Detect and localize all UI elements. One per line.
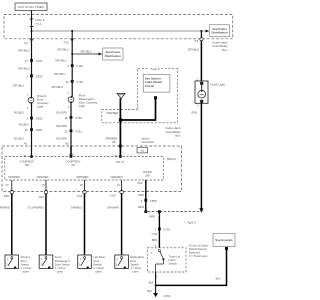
svg-text:F13: F13 (64, 40, 69, 44)
svg-text:Circuit: Circuit (145, 84, 154, 88)
junction node at F13 tap (71, 30, 73, 32)
connector 2 C933 (30, 74, 33, 77)
svg-text:HOT AT ALL TIMES: HOT AT ALL TIMES (18, 5, 43, 9)
option connector small box (137, 148, 148, 153)
svg-text:INT LT: INT LT (116, 160, 124, 164)
fuse 6 element ticks (30, 18, 34, 20)
label Driver's Door Courtesy Light (37, 94, 49, 109)
svg-text:BRN: BRN (152, 238, 158, 242)
trunk lid latch switch dashed box (147, 248, 186, 272)
svg-text:(*2) GRN/RED: (*2) GRN/RED (27, 205, 44, 209)
wire C lower (thick) (84, 194, 86, 255)
circle where GRN/RED wire enters box (119, 145, 122, 148)
svg-text:GRY/BLU: GRY/BLU (188, 48, 199, 52)
svg-text:* : Type 5: * : Type 5 (184, 221, 197, 225)
thick wire from triangle down to box (119, 98, 121, 146)
svg-text:GRN/RED: GRN/RED (77, 175, 89, 179)
svg-text:H12: H12 (39, 195, 45, 199)
connector 15 C604 (30, 128, 33, 131)
wire W1 (31, 41, 33, 98)
wire color labels above switches (0, 205, 120, 209)
svg-text:16: 16 (80, 183, 84, 187)
connector circle H12 (44, 190, 48, 194)
svg-text:BLK: BLK (149, 280, 154, 284)
svg-text:E18: E18 (4, 194, 9, 198)
svg-text:Light: Light (37, 105, 43, 109)
svg-text:Fuse 6: Fuse 6 (35, 18, 45, 22)
svg-text:18: 18 (64, 116, 68, 120)
svg-text:15: 15 (42, 183, 46, 187)
wire E from box to C505 (145, 180, 147, 212)
ground symbol G701 (153, 293, 158, 297)
svg-text:Connector: Connector (141, 140, 154, 144)
svg-text:GRN/WHT: GRN/WHT (107, 205, 120, 209)
terminal squares on inner box edge (30, 155, 33, 158)
arrow to See Power Distribution (top right) (206, 30, 210, 33)
front passenger's door courtesy light bulb (68, 96, 74, 103)
label Option Connector (141, 136, 154, 144)
svg-text:10: 10 (66, 80, 70, 84)
wire W2 drop from bus (71, 31, 73, 39)
connector 20 C751 (70, 129, 73, 132)
wire W2 (71, 41, 73, 97)
terminal dot on jumper for wire F (158, 210, 161, 213)
label: Under-dash Fuse/Relay Box (top right) (212, 40, 228, 52)
GRN/RED labels above output pins (8, 175, 123, 179)
left rear door switch (78, 255, 92, 269)
terminal under switch circuit box (154, 96, 157, 99)
label Type 5 (149, 67, 162, 71)
wire D upper (121, 180, 123, 191)
svg-text:7.5 A: 7.5 A (35, 22, 41, 26)
svg-text:BRN: BRN (150, 214, 156, 218)
connector circle E16 (83, 190, 87, 194)
svg-text:open: open (57, 270, 64, 274)
svg-text:F2: F2 (24, 41, 28, 45)
svg-text:A3: A3 (65, 141, 69, 145)
svg-text:open: open (132, 270, 139, 274)
connector F13 on box edge (71, 38, 74, 41)
svg-text:open: open (95, 270, 102, 274)
wire B upper (45, 180, 47, 191)
svg-text:GRN/RED: GRN/RED (0, 205, 10, 209)
arrowhead at trunk wire end (199, 208, 203, 213)
connector 4 C505 (144, 199, 147, 202)
svg-text:BLK: BLK (216, 276, 221, 280)
svg-text:YEL/BLU: YEL/BLU (13, 137, 24, 141)
connector circle E18 (10, 190, 14, 194)
svg-text:C736: C736 (76, 80, 83, 84)
svg-text:C505: C505 (150, 199, 157, 203)
svg-text:YEL/BLU: YEL/BLU (18, 123, 29, 127)
wire W1 lower (31, 103, 33, 146)
svg-text:C604: C604 (36, 128, 43, 132)
connector F2 on box edge (30, 38, 33, 41)
inner MICU dashed box (5, 157, 164, 181)
svg-text:Type 5: Type 5 (151, 67, 160, 71)
svg-text:BLK: BLK (147, 289, 152, 293)
sub-label COURTESY AS (66, 160, 81, 167)
bus wire inside fuse box (32, 30, 207, 32)
svg-text:1 = Trunk open: 1 = Trunk open (189, 254, 208, 258)
svg-text:Box: Box (222, 48, 228, 52)
svg-text:YEL/BLU: YEL/BLU (13, 111, 24, 115)
svg-text:YEL/GRN: YEL/GRN (56, 136, 68, 140)
svg-text:GRY/BLU: GRY/BLU (51, 85, 62, 89)
svg-text:P23: P23 (138, 181, 143, 185)
driver's door switch (5, 255, 19, 269)
wire B lower (thick) (45, 194, 47, 255)
svg-text:20: 20 (64, 129, 68, 133)
connector 10 C736 (71, 80, 74, 83)
svg-text:T1: T1 (141, 149, 145, 153)
trunk light feed wire (200, 41, 202, 81)
sub-label TRUNK SW (143, 170, 152, 177)
wire F down to trunk switch (158, 213, 160, 248)
connector F3 on box edge (200, 38, 203, 41)
sub-label INT LT (116, 160, 124, 164)
wire A upper (11, 180, 13, 191)
svg-text:BRN: BRN (138, 205, 144, 209)
junction to ground bus (155, 284, 157, 286)
thick ground link wire (156, 248, 227, 286)
svg-text:See Grounds: See Grounds (215, 238, 233, 242)
svg-text:E16: E16 (77, 194, 82, 198)
svg-text:15: 15 (25, 128, 29, 132)
svg-text:C755: C755 (75, 116, 82, 120)
svg-text:Distribution: Distribution (105, 54, 121, 58)
front passenger's door switch (39, 255, 53, 269)
svg-text:GRY/BLU: GRY/BLU (55, 59, 66, 63)
label Under-dash Fuse/Relay Box (middle) (165, 126, 181, 138)
connector 4 C132 (71, 64, 74, 67)
See Power Distribution box (top right) (210, 25, 230, 37)
trunk light box (195, 81, 208, 103)
wire W1 upper segment (fuse to box edge) (31, 31, 33, 39)
HOT AT ALL TIMES box (15, 3, 47, 10)
svg-text:Trunk Light: Trunk Light (210, 82, 225, 86)
connector 18 C755 (70, 116, 73, 119)
See Power Distribution box (middle) (103, 48, 123, 60)
junction node at F3 tap (200, 30, 202, 32)
svg-text:GRY/BLU: GRY/BLU (13, 84, 24, 88)
under-dash fuse/relay box (top) dashed outline (4, 15, 233, 39)
svg-text:G701: G701 (164, 294, 171, 298)
svg-text:C431: C431 (36, 59, 43, 63)
label Trunk Lid Latch Switch (inside box) (169, 254, 181, 265)
svg-text:(MICU): (MICU) (167, 157, 176, 161)
See Interior Light Switch Circuit box (143, 74, 170, 92)
trunk light ground wire (200, 103, 202, 208)
wire D lower (thick) (121, 194, 123, 255)
Type 5 dashed box (102, 68, 178, 122)
svg-text:GRN/RED: GRN/RED (37, 175, 49, 179)
svg-text:H13: H13 (111, 194, 117, 198)
See Grounds box (213, 234, 235, 247)
connector 1 C933 (30, 117, 33, 120)
svg-text:C933: C933 (36, 117, 43, 121)
svg-text:TRUNK: TRUNK (143, 170, 152, 174)
svg-text:C132: C132 (76, 64, 83, 68)
wire stubs inside outer box (31, 146, 33, 157)
svg-text:Switch: Switch (169, 262, 178, 266)
svg-text:GRY/BLU: GRY/BLU (57, 47, 68, 51)
svg-text:SW: SW (145, 174, 150, 178)
svg-text:GRN/BLU: GRN/BLU (71, 205, 83, 209)
svg-text:open: open (23, 270, 30, 274)
connector 2 C761 (158, 228, 161, 231)
driver's door courtesy light bulb (28, 97, 34, 104)
svg-text:YEL/GRN: YEL/GRN (56, 124, 68, 128)
wire W2 lower (70, 103, 72, 147)
ground wire from trunk latch (155, 272, 157, 293)
sub-label COURTESY DR (20, 160, 35, 167)
junction square at thick wire corner (119, 118, 122, 121)
switch symbol inside trunk latch box (151, 250, 165, 272)
connector circle H13 (120, 190, 124, 194)
wire F3 drop from bus (200, 31, 202, 39)
wire C upper (84, 180, 86, 191)
svg-text:A2: A2 (24, 141, 28, 145)
label Front Passenger's Door Courtesy Light (79, 93, 98, 108)
dashed option jumper (148, 211, 201, 213)
svg-text:DR: DR (25, 163, 29, 167)
svg-text:17: 17 (5, 183, 9, 187)
svg-text:GRN/WHT: GRN/WHT (111, 175, 124, 179)
svg-text:Light: Light (79, 104, 85, 108)
right rear door switch (115, 255, 129, 269)
svg-text:F3: F3 (195, 39, 199, 43)
connector 17 C431 (30, 59, 33, 62)
wire A lower (thick) (11, 194, 13, 255)
svg-text:Box: Box (175, 134, 181, 138)
svg-text:(*10): (*10) (152, 232, 158, 236)
terminal dot at wire E end (144, 210, 147, 213)
triangle continuation symbol (117, 93, 125, 98)
terminal dot at see grounds (225, 247, 228, 250)
svg-text:14: 14 (117, 183, 121, 187)
svg-text:GRN/RED: GRN/RED (8, 175, 20, 179)
svg-text:GRY/BLU: GRY/BLU (18, 49, 29, 53)
thick wire from switch circuit box down (155, 99, 157, 121)
fuse F6 wire (from HOT box into fuse box) (31, 10, 33, 31)
outer dashed box (2, 146, 182, 192)
svg-text:Distribution: Distribution (211, 31, 227, 35)
svg-text:GRN/RED: GRN/RED (106, 111, 118, 115)
svg-text:GRY/BLU: GRY/BLU (18, 67, 29, 71)
svg-text:C761: C761 (163, 227, 170, 231)
svg-text:16: 16 (23, 154, 27, 158)
svg-text:YEL/GRN: YEL/GRN (56, 110, 68, 114)
junction node at fuse output (31, 30, 33, 32)
svg-text:C933: C933 (36, 74, 43, 78)
svg-text:16: 16 (114, 154, 118, 158)
label Trunk Lid Latch Switch/Opener Solenoid (right of box) (189, 243, 209, 258)
svg-text:C751: C751 (75, 129, 82, 133)
svg-text:17: 17 (25, 59, 29, 63)
branch to see power distribution (72, 53, 99, 55)
svg-text:P35: P35 (69, 152, 74, 156)
thick wire horizontal to triangle wire (120, 119, 156, 121)
svg-text:AS: AS (71, 163, 75, 167)
svg-text:A5: A5 (112, 140, 116, 144)
svg-text:GRY/BLU: GRY/BLU (80, 50, 91, 54)
svg-text:GRN: GRN (138, 193, 144, 197)
svg-text:GRN: GRN (191, 111, 197, 115)
svg-text:GRY/BLU: GRY/BLU (54, 72, 65, 76)
